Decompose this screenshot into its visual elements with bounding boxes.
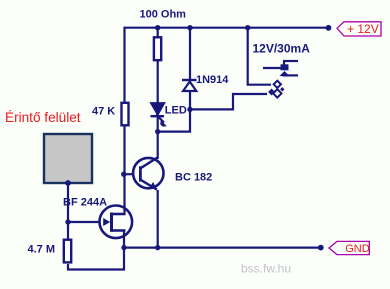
wire ground rail	[124, 247, 321, 249]
node dot JFET source / ground	[121, 245, 126, 250]
wire LED cathode to collector node	[157, 117, 159, 132]
node dot LED cathode / collector	[155, 129, 160, 134]
node dot touch plate	[65, 180, 71, 186]
node dot rail end at +12V tag	[326, 25, 332, 31]
svg-text:Érintő felület: Érintő felület	[5, 110, 81, 125]
touch plate (Érintő felület)	[44, 134, 92, 183]
node dot rail/relay	[245, 25, 250, 30]
wire 4.7M bottom to ground rail	[68, 248, 124, 270]
transistor Q2 BF 244A (JFET)	[100, 206, 133, 239]
node dot BC182 base / JFET drain	[121, 172, 126, 177]
svg-text:BF 244A: BF 244A	[63, 197, 107, 209]
node dot gate / 4.7M	[65, 219, 70, 224]
svg-text:100 Ohm: 100 Ohm	[140, 9, 187, 21]
svg-text:1N914: 1N914	[196, 74, 229, 86]
wire 1N914 anode to node	[189, 91, 191, 110]
resistor 47 K	[122, 103, 129, 126]
net tag +12V	[337, 22, 381, 36]
wire BC182 emitter to ground rail	[157, 190, 159, 248]
relay contact (switch)	[263, 61, 298, 76]
transistor Q1 BC 182	[133, 158, 163, 190]
svg-text:47 K: 47 K	[92, 106, 115, 118]
wire rail to 100 Ohm resistor	[157, 28, 159, 37]
wire rail to 1N914 cathode	[189, 28, 191, 80]
wire touch plate to gate node	[67, 183, 69, 239]
wire JFET gate	[68, 221, 101, 223]
wire base of BC182	[124, 173, 134, 175]
net tag GND	[329, 241, 370, 255]
node dot diode anode	[187, 107, 192, 112]
svg-text:4.7 M: 4.7 M	[28, 244, 56, 256]
node dot rail/100Ohm	[155, 25, 160, 30]
wire JFET source to ground rail	[112, 231, 125, 248]
node dot ground rail end at GND tag	[318, 245, 324, 251]
node dot emitter / ground	[155, 245, 160, 250]
wire 100 Ohm to LED anode	[157, 61, 159, 104]
resistor 4.7 M	[64, 240, 71, 263]
diode 1N914	[182, 80, 197, 91]
resistor 100 Ohm	[154, 37, 161, 60]
wire rail to relay coil upper terminal	[248, 28, 271, 85]
wire 47K bottom to base node and JFET drain	[112, 125, 125, 214]
node dot rail/1N914	[187, 25, 192, 30]
LED	[151, 103, 167, 127]
svg-text:GND: GND	[345, 243, 370, 255]
svg-text:12V/30mA: 12V/30mA	[253, 42, 311, 56]
wire collector node to diode anode node	[158, 109, 190, 131]
wire node to relay coil lower terminal	[190, 94, 267, 109]
wire left drop from rail to 47K	[123, 27, 125, 102]
svg-text:+ 12V: + 12V	[347, 22, 379, 36]
svg-text:LED: LED	[165, 105, 187, 117]
svg-text:BC 182: BC 182	[175, 172, 212, 184]
wire BC182 collector	[157, 132, 159, 159]
wire top +12V rail	[125, 27, 329, 29]
svg-text:bss.fw.hu: bss.fw.hu	[241, 262, 291, 276]
relay coil 12V/30mA	[268, 81, 284, 98]
